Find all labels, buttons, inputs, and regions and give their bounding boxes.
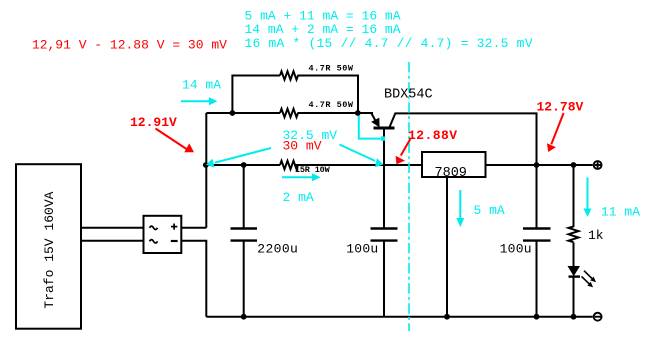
- svg-text:5 mA: 5 mA: [474, 203, 505, 218]
- svg-text:BDX54C: BDX54C: [384, 88, 433, 103]
- svg-text:12,91 V - 12.88 V = 30 mV: 12,91 V - 12.88 V = 30 mV: [32, 37, 227, 52]
- svg-text:7809: 7809: [435, 166, 467, 181]
- svg-text:16 mA * (15 // 4.7 // 4.7) = 3: 16 mA * (15 // 4.7 // 4.7) = 32.5 mV: [245, 36, 533, 51]
- svg-text:11 mA: 11 mA: [601, 204, 640, 219]
- svg-text:12.91V: 12.91V: [130, 115, 177, 130]
- svg-text:100u: 100u: [500, 241, 532, 256]
- svg-text:1k: 1k: [588, 228, 604, 243]
- svg-text:15R 10W: 15R 10W: [295, 165, 331, 175]
- svg-text:12.88V: 12.88V: [408, 128, 457, 143]
- svg-text:100u: 100u: [346, 241, 378, 256]
- svg-text:4.7R 50W: 4.7R 50W: [309, 63, 354, 73]
- svg-text:4.7R 50W: 4.7R 50W: [309, 100, 354, 110]
- svg-text:Trafo 15V 160VA: Trafo 15V 160VA: [42, 191, 57, 308]
- svg-text:2 mA: 2 mA: [283, 190, 314, 205]
- svg-text:2200u: 2200u: [257, 241, 298, 256]
- svg-text:14 mA: 14 mA: [182, 77, 221, 92]
- svg-text:30 mV: 30 mV: [283, 139, 322, 154]
- svg-text:12.78V: 12.78V: [537, 100, 584, 115]
